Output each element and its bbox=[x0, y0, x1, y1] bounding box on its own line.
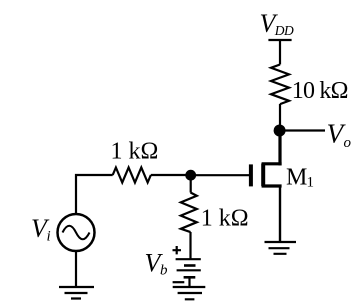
ground under M1 source bbox=[265, 242, 297, 254]
transistor M1 drain wire bbox=[278, 131, 281, 166]
label VDD bbox=[260, 9, 295, 38]
svg-text:M: M bbox=[286, 165, 307, 191]
source Vi sine wave bbox=[63, 226, 90, 240]
label Vi bbox=[31, 214, 51, 245]
svg-text:o: o bbox=[344, 135, 352, 151]
wire Vi to ground bbox=[75, 251, 77, 287]
wire RD to output node bbox=[279, 104, 281, 131]
ground under battery bbox=[173, 287, 206, 299]
battery Vb long plate 2 bbox=[177, 269, 201, 271]
svg-text:DD: DD bbox=[274, 23, 294, 38]
wire output node to Vo terminal bbox=[280, 129, 325, 131]
transistor M1 gate bar bbox=[249, 164, 253, 186]
transistor M1 drain stub bbox=[262, 162, 282, 165]
wire Vi up and over to resistor RG bbox=[76, 175, 113, 214]
transistor M1 source stub bbox=[262, 184, 282, 187]
wire RB to battery Vb bbox=[189, 232, 191, 259]
svg-text:1: 1 bbox=[307, 174, 315, 190]
transistor M1 channel bar bbox=[261, 164, 265, 187]
svg-text:1 kΩ: 1 kΩ bbox=[111, 139, 159, 165]
wire RG to gate node bbox=[151, 174, 191, 176]
svg-text:1 kΩ: 1 kΩ bbox=[201, 206, 249, 232]
svg-text:10 kΩ: 10 kΩ bbox=[292, 78, 348, 104]
wire VDD rail to resistor RD bbox=[279, 39, 281, 65]
svg-text:b: b bbox=[160, 263, 168, 279]
wire battery to ground bbox=[188, 277, 190, 287]
svg-text:i: i bbox=[47, 229, 51, 245]
transistor M1 source wire bbox=[279, 186, 281, 242]
resistor RB 1 kOhm vertical bbox=[181, 193, 197, 233]
plus sign of Vb bbox=[173, 246, 182, 254]
resistor RG 1 kOhm horizontal bbox=[113, 168, 151, 183]
source Vi circle bbox=[58, 214, 95, 251]
ground under Vi bbox=[59, 287, 94, 299]
battery Vb long plate 1 bbox=[176, 258, 201, 260]
label Vo bbox=[327, 119, 352, 151]
wire gate node down to resistor RB bbox=[190, 175, 192, 192]
node gate junction dot bbox=[185, 170, 196, 181]
minus sign of Vb bbox=[173, 281, 185, 283]
label Vb bbox=[145, 249, 169, 279]
battery Vb short plate 1 bbox=[184, 264, 196, 267]
resistor RD 10 kOhm bbox=[271, 65, 289, 105]
battery Vb short plate 2 bbox=[184, 276, 196, 279]
wire gate node to gate bar bbox=[191, 174, 250, 176]
power rail VDD bbox=[268, 39, 291, 41]
node output junction dot bbox=[274, 125, 286, 137]
